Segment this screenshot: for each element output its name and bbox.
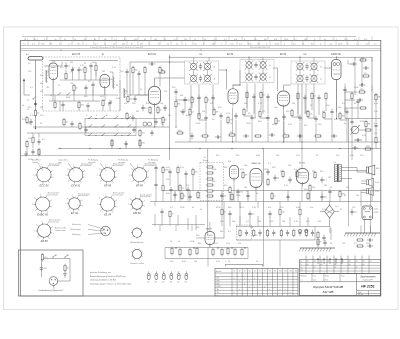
resistor R4	[65, 72, 67, 80]
wire ECH81 anode	[154, 78, 156, 87]
resistor R38	[359, 59, 367, 61]
capacitor C102	[248, 211, 254, 217]
svg-text:56k: 56k	[244, 165, 247, 167]
svg-text:x: x	[244, 278, 245, 280]
socket dial jack	[143, 122, 152, 126]
svg-text:EABC 80: EABC 80	[37, 213, 48, 217]
wire w16	[92, 88, 94, 95]
wire w61	[273, 67, 278, 69]
svg-text:6,8k: 6,8k	[182, 261, 186, 263]
title model text	[313, 285, 343, 294]
capacitor C81	[343, 87, 346, 93]
switch bank bus y226	[236, 225, 330, 227]
wire w60	[239, 70, 241, 85]
svg-text:50: 50	[184, 196, 186, 198]
capacitor C75	[197, 95, 200, 101]
svg-text:220: 220	[43, 268, 46, 270]
svg-text:12k: 12k	[282, 212, 285, 214]
wire w72	[246, 84, 248, 113]
resistor R79	[311, 92, 316, 100]
svg-text:2M: 2M	[136, 111, 139, 113]
wire w32	[132, 74, 134, 95]
IF transformer Bf1	[185, 61, 219, 84]
svg-text:EM 80: EM 80	[133, 211, 141, 215]
resistor R80	[325, 92, 327, 100]
bus y133	[27, 132, 130, 134]
lower band wiring 2	[155, 171, 340, 230]
resistor R25	[243, 108, 245, 116]
wire w8	[72, 73, 74, 80]
svg-text:0,2: 0,2	[293, 43, 296, 45]
svg-text:4a: 4a	[307, 264, 309, 266]
svg-text:217: 217	[321, 261, 324, 263]
wire w182	[329, 195, 331, 202]
wire w173	[192, 176, 194, 191]
wire w65	[324, 67, 332, 69]
wire w87	[59, 101, 61, 111]
svg-text:EL 84: EL 84	[104, 213, 111, 217]
inset switch Sf1	[52, 255, 57, 258]
svg-text:10k: 10k	[228, 161, 231, 163]
wire w142	[247, 191, 249, 202]
svg-text:4k: 4k	[214, 67, 216, 69]
capacitor C52	[288, 177, 291, 183]
switch bank components	[239, 229, 314, 237]
svg-text:EF 89: EF 89	[227, 54, 234, 56]
svg-text:4x: 4x	[84, 39, 86, 41]
svg-text:,1/2: ,1/2	[329, 43, 332, 45]
svg-text:0,1: 0,1	[124, 39, 127, 41]
svg-text:x: x	[290, 295, 291, 297]
vertical x263	[262, 149, 264, 226]
svg-text:0,1: 0,1	[324, 180, 327, 182]
resistor R78	[297, 92, 299, 100]
svg-text:ECC 85: ECC 85	[72, 54, 81, 56]
wire w196	[279, 216, 281, 226]
svg-text:k: k	[86, 43, 87, 45]
svg-text:2k: 2k	[208, 100, 210, 102]
wire w205	[299, 202, 301, 209]
svg-text:7: 7	[41, 165, 42, 167]
resistor R99	[169, 210, 174, 218]
tube ECH81	[149, 87, 161, 108]
svg-text:10k: 10k	[160, 103, 163, 105]
wire tuner internal 1	[44, 65, 49, 67]
wire grid ECH81	[135, 94, 149, 96]
wire w177	[179, 192, 181, 202]
wire w176	[170, 193, 172, 202]
wire w21	[78, 109, 80, 111]
svg-text:6,8k: 6,8k	[166, 193, 170, 195]
svg-text:220k: 220k	[354, 87, 358, 89]
wire w120	[345, 107, 358, 109]
switch S1	[32, 96, 36, 99]
capacitor C48	[297, 134, 303, 137]
svg-text:25k: 25k	[338, 107, 341, 109]
svg-text:4: 4	[36, 181, 37, 183]
tube socket ECH81 socket	[65, 162, 92, 187]
wire w157	[223, 202, 225, 227]
svg-text:7 0: 7 0	[114, 39, 117, 41]
capacitor C15	[163, 105, 166, 111]
svg-text:60: 60	[37, 113, 39, 115]
resistor R90	[162, 166, 169, 174]
resistor R101	[221, 208, 226, 216]
svg-text:407: 407	[104, 39, 107, 41]
svg-text:Anschlußbelegung Wechsel P102/: Anschlußbelegung Wechsel P102/Trop.	[90, 275, 126, 278]
wire w75	[283, 106, 285, 142]
svg-text:47k: 47k	[238, 243, 241, 245]
wire w93	[162, 124, 164, 127]
svg-text:25: 25	[167, 43, 169, 45]
wire w138	[262, 225, 264, 240]
wire w169	[162, 174, 164, 184]
inset switch Sf2	[64, 255, 68, 258]
wire w112	[244, 115, 252, 117]
capacitor C30	[330, 109, 333, 115]
svg-text:LW: LW	[217, 278, 220, 280]
wire w102	[299, 122, 301, 142]
svg-text:470: 470	[81, 105, 84, 107]
svg-text:9: 9	[84, 170, 85, 172]
resistor R48	[314, 135, 322, 137]
power transformer Tr2	[362, 206, 378, 233]
wire tuner bottom parts	[49, 100, 100, 102]
svg-text:1k: 1k	[50, 95, 52, 97]
wire w63	[283, 85, 285, 91]
tube ECC85b	[100, 75, 110, 91]
resistor R92	[192, 168, 198, 176]
wire w199	[307, 217, 309, 226]
tube socket EABC80 socket	[32, 192, 59, 217]
capacitor C94	[169, 187, 172, 193]
wire w104	[331, 116, 333, 142]
svg-text:1:1: 1:1	[301, 280, 303, 282]
wire w92	[175, 108, 177, 127]
wire w73	[254, 84, 256, 119]
band switching table	[215, 269, 298, 297]
wire w94	[155, 126, 157, 127]
svg-text:2M: 2M	[312, 187, 315, 189]
resistor R56	[197, 191, 199, 199]
svg-text:7: 7	[73, 165, 74, 167]
resistor R73	[126, 112, 128, 120]
capacitor C71	[137, 71, 140, 77]
title block	[300, 274, 381, 296]
wire w59	[233, 84, 241, 86]
svg-text:1M: 1M	[264, 39, 267, 41]
svg-text:Olympia 541W 541WB: Olympia 541W 541WB	[313, 285, 343, 289]
bracket above table	[225, 261, 263, 267]
wire w144	[321, 191, 323, 202]
svg-text:5: 5	[97, 175, 98, 177]
svg-text:1 0: 1 0	[23, 43, 26, 45]
wire w89	[92, 89, 94, 101]
svg-text:S11: S11	[284, 271, 287, 273]
parts list separators	[28, 36, 372, 45]
capacitor C90	[154, 165, 157, 171]
wire w10	[84, 74, 86, 80]
svg-text:9: 9	[116, 200, 117, 202]
bus y148	[58, 148, 381, 150]
resistor R95	[229, 186, 231, 194]
svg-text:Tr 1: Tr 1	[333, 162, 336, 164]
svg-text:12: 12	[314, 267, 316, 269]
resistor R57	[231, 193, 233, 201]
wire w204	[279, 202, 281, 209]
svg-text:2: 2	[141, 210, 142, 212]
svg-text:12 k: 12 k	[77, 43, 81, 45]
svg-text:1k: 1k	[200, 209, 202, 211]
svg-text:12k: 12k	[356, 195, 359, 197]
resistor R21	[189, 108, 194, 116]
svg-text:00: 00	[144, 39, 146, 41]
svg-text:1: 1	[51, 206, 52, 208]
wire w1	[49, 65, 62, 67]
wire w116	[324, 118, 332, 120]
svg-text:4k: 4k	[269, 65, 271, 67]
tube socket EC92 socket	[65, 192, 90, 214]
svg-text:1M: 1M	[282, 221, 285, 223]
resistor R26	[259, 110, 261, 118]
svg-text:Gr 1: Gr 1	[335, 206, 339, 208]
resistor R97	[339, 190, 345, 198]
svg-text:10k: 10k	[194, 261, 197, 263]
dial lamp La2	[155, 271, 158, 283]
svg-text:12k: 12k	[346, 187, 349, 189]
svg-text:5k: 5k	[277, 178, 279, 180]
wire w71	[232, 108, 234, 143]
svg-text:ECH 81: ECH 81	[71, 183, 81, 187]
wire w23	[102, 107, 104, 111]
wire w31	[126, 75, 128, 95]
switch contact S2a	[57, 92, 61, 95]
svg-text:0,3: 0,3	[278, 121, 281, 123]
svg-text:S8: S8	[269, 271, 271, 273]
svg-text:9: 9	[144, 200, 145, 202]
svg-text:25k: 25k	[52, 61, 55, 63]
wire w14	[112, 72, 114, 76]
resistor R50	[242, 171, 248, 179]
wire w49	[325, 100, 327, 111]
resistor R9	[78, 101, 84, 109]
capacitor C74	[183, 97, 186, 103]
wire w55	[129, 62, 131, 95]
svg-text:EC 92: EC 92	[71, 211, 79, 215]
svg-text:6: 6	[131, 168, 132, 170]
top parts-list strip	[20, 36, 380, 50]
svg-text:Sch: Sch	[300, 270, 303, 272]
heater wiring arrows	[317, 258, 343, 264]
switch row parts	[111, 139, 113, 147]
wire w36	[184, 103, 186, 112]
svg-text:1: 1	[82, 206, 83, 208]
svg-text:0,1: 0,1	[145, 108, 148, 110]
speaker LS1	[357, 165, 380, 175]
resistor R33	[358, 89, 366, 93]
svg-text:4: 4	[266, 43, 267, 45]
svg-text:Traf: Traf	[230, 42, 234, 45]
parts table right	[300, 256, 381, 274]
svg-text:9: 9	[52, 227, 53, 229]
resistor R36	[364, 129, 372, 131]
wire w45	[297, 100, 299, 114]
svg-text:100: 100	[142, 133, 145, 135]
wire w74	[262, 84, 264, 115]
capacitor C21	[181, 109, 184, 115]
svg-text:470: 470	[364, 39, 367, 41]
wire w17	[85, 91, 87, 95]
IF transformer Bf2	[240, 60, 274, 83]
svg-text:1k: 1k	[76, 88, 78, 90]
svg-text:400: 400	[44, 257, 47, 259]
svg-text:7 1: 7 1	[334, 39, 337, 41]
svg-text:1M: 1M	[40, 107, 43, 109]
wire w2	[61, 62, 63, 66]
svg-text:,8k: ,8k	[254, 39, 257, 41]
tube ECC85a	[49, 63, 58, 82]
svg-text:2,5k: 2,5k	[116, 98, 120, 100]
svg-text:1k: 1k	[162, 70, 164, 72]
bottom components row	[171, 247, 246, 256]
inset circuit wires	[41, 258, 70, 281]
wire right h1	[345, 118, 381, 120]
inset capacitor Cf1	[40, 265, 47, 271]
wire bottom bus	[165, 247, 248, 249]
svg-text:6: 6	[99, 198, 100, 200]
wire w143	[287, 191, 289, 202]
wire w5	[44, 94, 118, 96]
wire w62	[277, 68, 279, 91]
switch contact S2b	[66, 92, 70, 95]
resistor R31	[339, 112, 345, 120]
capacitor C16	[174, 89, 177, 95]
EM80 wiring	[196, 222, 210, 248]
svg-text:6,8k: 6,8k	[296, 207, 300, 209]
capacitor C36	[352, 146, 358, 149]
svg-text:7: 7	[42, 221, 43, 223]
capacitor C53	[320, 177, 326, 183]
svg-text:4k: 4k	[269, 77, 271, 79]
svg-text:42: 42	[200, 49, 202, 51]
wire w29	[348, 63, 355, 65]
resistor R6	[95, 64, 97, 72]
wire w137	[223, 226, 225, 238]
wire w85	[95, 72, 97, 76]
svg-text:5k: 5k	[176, 43, 178, 45]
capacitor C24	[234, 113, 237, 119]
wire w190	[221, 216, 223, 226]
wire w107	[365, 128, 367, 142]
resistor R96	[309, 184, 311, 192]
svg-text:5: 5	[129, 175, 130, 177]
wire right bus vertical	[371, 57, 373, 202]
svg-text:x: x	[280, 289, 281, 291]
wire w146	[301, 184, 303, 202]
capacitor C41	[84, 127, 87, 133]
wire w180	[237, 195, 239, 202]
resistor R76	[246, 91, 248, 99]
svg-text:2,5k: 2,5k	[252, 207, 256, 209]
svg-text:UKW: UKW	[217, 286, 221, 288]
svg-text:6,8k: 6,8k	[334, 119, 338, 121]
wire w95	[189, 116, 191, 142]
capacitor C79	[303, 95, 306, 101]
svg-text:S3: S3	[244, 271, 246, 273]
svg-text:0,1/: 0,1/	[32, 43, 36, 45]
svg-text:0,1: 0,1	[182, 188, 185, 190]
capacitor C8	[91, 82, 94, 88]
svg-text:EF 89: EF 89	[104, 183, 111, 187]
note row above sockets	[32, 159, 158, 164]
svg-text:250V: 250V	[338, 43, 343, 45]
svg-text:M 4: M 4	[274, 39, 277, 41]
svg-text:S4: S4	[249, 271, 251, 273]
resistor R22	[198, 112, 200, 120]
svg-text:2: 2	[79, 210, 80, 212]
svg-text:2,5k: 2,5k	[374, 111, 378, 113]
capacitor C35	[350, 119, 353, 125]
wire w202	[239, 202, 241, 209]
svg-text:Gesehen v. außen: Gesehen v. außen	[130, 263, 144, 265]
resistor R82	[362, 73, 370, 77]
wire w67	[154, 105, 156, 128]
svg-text:9: 9	[82, 200, 83, 202]
svg-text:4: 4	[132, 181, 133, 183]
svg-text:5: 5	[65, 175, 66, 177]
wire w35	[159, 74, 161, 86]
svg-text:5k: 5k	[192, 207, 194, 209]
svg-text:Tag: Tag	[313, 275, 316, 277]
wire w145	[301, 142, 303, 169]
wire w111	[199, 119, 207, 121]
tube socket EM80 socket	[128, 193, 152, 215]
svg-text:4,7k: 4,7k	[258, 103, 262, 105]
tuner box (dashed)	[43, 57, 121, 111]
wire w11	[90, 69, 92, 80]
svg-text:12k: 12k	[326, 105, 329, 107]
wire w26	[375, 129, 377, 136]
inset tube socket	[49, 277, 58, 290]
svg-text:12k: 12k	[70, 83, 73, 85]
resistor R54	[314, 171, 316, 179]
wire w117	[340, 119, 347, 121]
svg-text:5k: 5k	[116, 85, 118, 87]
resistor R7	[73, 84, 78, 92]
svg-text:680: 680	[212, 43, 215, 45]
svg-text:,05: ,05	[194, 43, 197, 45]
resistor R75	[205, 96, 210, 104]
svg-text:4,7: 4,7	[66, 122, 69, 124]
chassis bar 2	[299, 248, 335, 252]
svg-text:0,5: 0,5	[252, 214, 255, 216]
svg-text:28 4: 28 4	[24, 39, 28, 41]
lower band labels	[166, 155, 370, 263]
wire w125	[32, 144, 34, 148]
svg-text:217: 217	[314, 261, 317, 263]
svg-text:5k: 5k	[354, 103, 356, 105]
capacitor C27	[282, 114, 285, 120]
wire w81	[354, 57, 356, 85]
svg-text:x: x	[239, 289, 240, 291]
svg-text:6,8k: 6,8k	[146, 103, 150, 105]
svg-text:220k: 220k	[108, 79, 112, 81]
svg-text:S1: S1	[234, 271, 236, 273]
capacitor C51	[273, 175, 279, 181]
svg-text:12: 12	[194, 39, 196, 41]
capacitor C33	[359, 83, 365, 86]
wire w134	[169, 149, 171, 161]
